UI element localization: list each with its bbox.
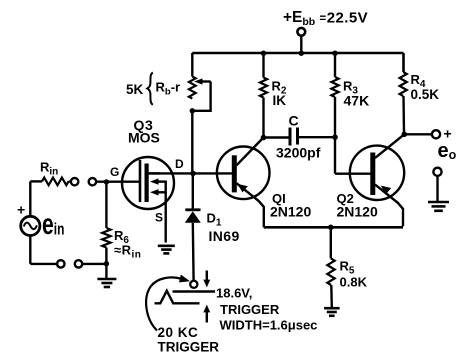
wire output	[404, 133, 431, 135]
svg-text:D: D	[175, 157, 184, 171]
arrow 20KC trigger pointer	[146, 275, 190, 331]
terminal trigger	[190, 281, 197, 288]
capacitor C 3200pf	[290, 128, 298, 146]
svg-text:IK: IK	[273, 93, 287, 108]
transistor Q1 2N120	[217, 138, 270, 228]
svg-text:0.5K: 0.5K	[411, 87, 440, 102]
ground R5	[324, 307, 340, 310]
wire C left	[264, 136, 289, 138]
wire pot to node D	[191, 109, 193, 174]
terminal +Ebb	[297, 28, 305, 53]
wire C right	[299, 136, 335, 138]
wire input bottom	[30, 263, 57, 265]
ground Q3 source	[158, 245, 175, 248]
junction dot node D	[190, 171, 196, 177]
wire Q3 source	[164, 192, 166, 242]
resistor R3 47K	[331, 53, 338, 174]
junction dot R6 bottom	[104, 261, 109, 266]
potentiometer Rb-r 5K	[189, 77, 196, 99]
pot wiper arrow	[194, 78, 210, 84]
resistor R2 1K	[260, 53, 267, 138]
ground input	[105, 264, 107, 278]
arrow amplitude bottom	[203, 305, 210, 323]
svg-text:3200pf: 3200pf	[276, 145, 321, 161]
resistor R4 0.5K	[400, 53, 407, 134]
svg-text:C: C	[289, 113, 299, 129]
junction dot R5 top	[328, 225, 334, 231]
source ein	[21, 181, 40, 264]
wire node D to Q1 base	[148, 172, 233, 174]
wire top supply rail	[192, 52, 403, 55]
waveform peak line	[173, 290, 216, 292]
transistor Q2 2N120	[350, 134, 405, 226]
junction dot C right node	[332, 134, 338, 140]
svg-text:TRIGGER: TRIGGER	[158, 340, 220, 355]
resistor R5 0.8K	[327, 227, 334, 307]
wire to Q3 gate	[96, 180, 140, 182]
svg-text:G: G	[110, 165, 119, 179]
svg-text:S: S	[155, 211, 163, 225]
terminal input bottom 2	[75, 260, 82, 267]
svg-text:2N120: 2N120	[337, 204, 378, 220]
junction dot R3 top	[332, 51, 337, 56]
svg-text:MOS: MOS	[128, 130, 160, 146]
ground output	[436, 176, 438, 201]
svg-text:WIDTH=1.6μsec: WIDTH=1.6μsec	[220, 318, 318, 333]
svg-text:IN69: IN69	[209, 228, 240, 244]
wire emitter bus	[264, 226, 403, 229]
terminal input top 1	[71, 178, 78, 185]
junction dot C left node	[261, 135, 267, 141]
transistor Q3 MOS	[122, 157, 174, 209]
resistor R6	[102, 182, 110, 264]
wire pot top lead	[191, 53, 193, 77]
svg-text:TRIGGER: TRIGGER	[220, 302, 280, 317]
svg-text:=: =	[320, 13, 327, 25]
terminal output +	[432, 130, 440, 138]
svg-text:0.8K: 0.8K	[340, 275, 368, 290]
resistor Rin	[30, 178, 71, 186]
wire R3 to Q2 base	[335, 172, 371, 174]
svg-text:+: +	[17, 202, 25, 218]
terminal input top 2	[89, 178, 96, 185]
svg-text:20 KC: 20 KC	[158, 325, 199, 340]
brace	[147, 73, 153, 105]
terminal output ground	[433, 168, 441, 176]
wire wiper loop	[192, 82, 210, 111]
svg-text:5K: 5K	[126, 82, 144, 97]
arrow amplitude top	[203, 271, 210, 288]
svg-text:2N120: 2N120	[270, 204, 311, 220]
junction dot R2 top	[261, 51, 266, 56]
junction dot pot bottom	[190, 108, 195, 113]
junction dot Ebb/rail	[299, 51, 304, 56]
svg-text:22.5V: 22.5V	[327, 10, 368, 27]
waveform pulse	[155, 291, 200, 304]
svg-text:18.6V,: 18.6V,	[216, 286, 252, 301]
diode D1 1N69	[185, 173, 201, 280]
junction dot output node	[402, 132, 408, 138]
wire bottom to R6	[82, 263, 106, 265]
junction dot R6 top	[104, 179, 109, 184]
svg-text:47K: 47K	[344, 93, 370, 109]
terminal input bottom 1	[57, 260, 64, 267]
